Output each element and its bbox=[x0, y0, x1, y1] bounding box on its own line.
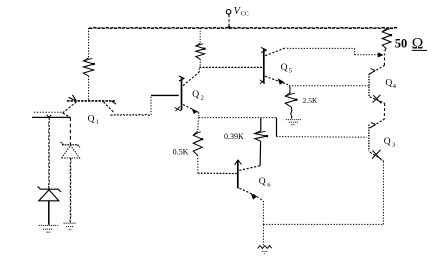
wire to Q3 base (dotted) bbox=[277, 136, 367, 139]
wire up to Q2 base level bbox=[150, 95, 152, 115]
wire R1 to Q1 base bbox=[88, 76, 90, 100]
wire R6 to Q4 collector bbox=[384, 49, 387, 55]
transistor Q5 emitter arrowhead bbox=[278, 78, 285, 84]
svg-text:50: 50 bbox=[395, 36, 408, 50]
transistor Q6 emitter bbox=[239, 188, 256, 196]
wire zener bus (solid) bbox=[32, 116, 70, 118]
zener diode D2 triangle bbox=[62, 145, 80, 158]
zener diode D1 cathode bar bbox=[38, 186, 61, 192]
transistor Q2 emitter bbox=[183, 105, 198, 113]
transistor Q5 base bar bbox=[263, 49, 265, 84]
wire Q1 collector run (horizontal) bbox=[111, 114, 152, 115]
transistor Q4 base bar bbox=[368, 74, 370, 97]
transistor Q6 base bar bbox=[237, 160, 239, 189]
node arrow at 50ohm junction bbox=[378, 52, 384, 57]
wire R3 to ground bbox=[291, 107, 292, 119]
wire rail to R1 bbox=[88, 28, 90, 58]
wire bottom rail up to Q3 emitter bbox=[382, 162, 384, 225]
transistor Q5 emitter bar marks bbox=[260, 79, 265, 84]
transistor Q3 collector arrow bbox=[370, 122, 376, 128]
svg-text:6: 6 bbox=[267, 182, 271, 189]
resistor R4 0.5K bbox=[193, 131, 202, 155]
transistor Q5 collector arrow bbox=[261, 47, 267, 52]
transistor Q6 collector arrow bbox=[235, 160, 242, 165]
wire Q6 emitter link bbox=[257, 197, 263, 201]
svg-text:Q: Q bbox=[259, 177, 266, 187]
transistor Q6 collector bbox=[239, 166, 260, 171]
wire Q6 emitter down to bottom rail bbox=[262, 201, 264, 224]
ground under D2 bbox=[64, 223, 77, 229]
wire Q5 collector to 50ohm node bbox=[287, 47, 355, 49]
wire node to Q5 base bbox=[199, 66, 263, 68]
wire Vcc lead (dashed) bbox=[228, 15, 230, 28]
transistor Q1 collector tick bbox=[112, 101, 116, 104]
svg-text:Q: Q bbox=[88, 114, 95, 124]
transistor Q2 emitter arrowhead bbox=[192, 108, 198, 114]
zener diode D2 cathode bar bbox=[61, 142, 80, 147]
transistor Q3 base bar bbox=[368, 125, 370, 152]
svg-text:Q: Q bbox=[385, 79, 392, 89]
wire corner down (emitter bus to Q3 base level) bbox=[276, 118, 278, 137]
transistor Q3 emitter bbox=[370, 152, 383, 160]
resistor R5 0.39K bbox=[255, 131, 267, 141]
transistor Q2 base bar bbox=[181, 77, 183, 110]
wire Q5 emitter to Q4 base bbox=[289, 85, 369, 87]
svg-text:2: 2 bbox=[201, 94, 204, 101]
transistor Q1 emitter bbox=[63, 102, 77, 113]
wire R4 to Q6 base corner bbox=[197, 155, 199, 173]
wire Q1 emitter to zener branch corner bbox=[63, 113, 71, 117]
svg-text:Ω: Ω bbox=[412, 35, 424, 52]
svg-text:4: 4 bbox=[393, 83, 397, 90]
svg-text:CC: CC bbox=[241, 12, 249, 18]
transistor Q6 emitter arrowhead bbox=[251, 193, 257, 199]
wire Q2 emitter down to R4 bbox=[197, 118, 200, 132]
wire Q2 collector up to node bbox=[198, 67, 200, 72]
wire bottom rail bbox=[263, 223, 383, 225]
wire input (dotted) to Q1 emitter bbox=[34, 111, 64, 113]
transistor Q2 collector arrow bbox=[179, 76, 185, 81]
Vcc terminal circle bbox=[226, 10, 231, 15]
wire Q2 emitter corner down bbox=[198, 112, 200, 117]
svg-text:0.39K: 0.39K bbox=[224, 132, 244, 141]
resistor R3 2.5K bbox=[285, 93, 296, 107]
svg-text:2.5K: 2.5K bbox=[303, 96, 318, 105]
svg-text:Q: Q bbox=[384, 137, 391, 147]
Vcc power rail (top) bbox=[89, 27, 398, 30]
resistor R2 (Q2 collector load) bbox=[196, 43, 205, 59]
resistor R1 (bias resistor, left) bbox=[83, 58, 93, 76]
transistor Q5 emitter bbox=[265, 76, 288, 84]
transistor Q1 emitter arrow (PNP, points to base) bbox=[69, 95, 77, 101]
wire D2 to ground bbox=[70, 158, 71, 223]
transistor Q4 collector bbox=[370, 65, 385, 73]
wire corner to zener D2 (dashed) bbox=[69, 117, 71, 144]
wire Q4 collector up to 50ohm bbox=[383, 55, 385, 65]
resistor R6 50 ohm bbox=[382, 28, 391, 48]
node junction tick at D1 branch bbox=[47, 115, 52, 118]
wire to Q6 base bbox=[198, 172, 237, 174]
svg-text:3: 3 bbox=[392, 142, 395, 149]
wire rail to R2 bbox=[199, 28, 201, 43]
wire D1 to ground bbox=[48, 201, 50, 225]
wire bottom rail to ground bbox=[262, 224, 264, 245]
svg-text:Q: Q bbox=[281, 63, 288, 73]
transistor Q3 collector bbox=[370, 119, 384, 128]
transistor Q2 emitter bar marks bbox=[175, 107, 182, 112]
svg-text:0.5K: 0.5K bbox=[173, 148, 189, 157]
transistor Q5 collector bbox=[265, 47, 286, 55]
wire Q3 emitter to bottom rail bbox=[382, 160, 384, 161]
wire emitter bus down to R5 bbox=[260, 118, 262, 131]
wire R5 to Q6 collector bbox=[259, 141, 262, 166]
wire to Q2 base (solid) bbox=[151, 94, 179, 96]
transistor Q4 collector arrow bbox=[370, 69, 376, 74]
ground under D1 bbox=[39, 225, 58, 232]
ground G3 (bottom center) bbox=[258, 246, 272, 249]
svg-text:5: 5 bbox=[289, 67, 292, 74]
wire Q5 emitter to R3 bbox=[289, 86, 292, 93]
wire Q4 emitter down to Q3 collector bbox=[383, 103, 385, 119]
wire to zener D1 bbox=[48, 117, 49, 188]
transistor Q1 base bar bbox=[67, 100, 116, 102]
transistor Q4 emitter bbox=[370, 97, 385, 103]
transistor Q3 emitter arrow marks bbox=[372, 150, 382, 160]
node Vcc junction on rail bbox=[226, 26, 232, 29]
wire Q2 emitter node (dotted, to 0.39K and Q3 base path) bbox=[199, 117, 277, 119]
transistor Q1 collector bbox=[103, 102, 114, 113]
transistor Q2 collector bbox=[183, 72, 199, 85]
svg-text:1: 1 bbox=[96, 118, 99, 125]
wire R2 to node bbox=[199, 59, 201, 67]
ground G4 under R3 bbox=[286, 120, 301, 125]
svg-text:Q: Q bbox=[192, 90, 199, 100]
zener diode D1 triangle bbox=[39, 190, 59, 201]
transistor Q4 emitter arrow marks bbox=[373, 95, 382, 104]
